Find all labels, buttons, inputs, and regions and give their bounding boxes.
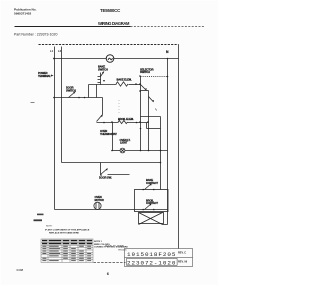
svg-text:REPLACE WITH SAME WIRE: REPLACE WITH SAME WIRE (49, 232, 79, 235)
svg-text:DOOR SW.: DOOR SW. (99, 176, 112, 180)
svg-text:REV. 06: REV. 06 (178, 261, 188, 264)
svg-text:NOTE 1: NOTE 1 (94, 241, 103, 243)
svg-text:TERMINAL: TERMINAL (38, 74, 51, 78)
svg-text:THERMOSTAT: THERMOSTAT (100, 132, 117, 136)
svg-text:SWITCH: SWITCH (98, 67, 108, 71)
svg-text:WIRING DIAGRAM: WIRING DIAGRAM (98, 21, 130, 26)
svg-text:BAKE ELEM.: BAKE ELEM. (117, 77, 132, 81)
svg-text:MOTOR: MOTOR (95, 198, 104, 202)
svg-text:SWITCH: SWITCH (140, 70, 150, 74)
svg-text:223072-1020: 223072-1020 (127, 259, 176, 266)
svg-text:IF ANY COMPONENT OF THIS APPLI: IF ANY COMPONENT OF THIS APPLIANCE (45, 228, 90, 231)
svg-text:TE5500C: TE5500C (118, 250, 127, 252)
svg-text:5995371402: 5995371402 (14, 12, 31, 16)
svg-text:0398: 0398 (17, 268, 24, 272)
svg-text:BROIL ELEM.: BROIL ELEM. (118, 117, 134, 121)
svg-text:L1: L1 (50, 49, 54, 53)
svg-text:CONTACT: CONTACT (146, 181, 158, 185)
svg-text:LIGHT: LIGHT (120, 141, 128, 145)
svg-text:NOTE:: NOTE: (46, 225, 53, 227)
svg-text:CONTACT: CONTACT (146, 201, 158, 205)
svg-text:L2: L2 (58, 49, 62, 53)
svg-text:SWITCH: SWITCH (66, 88, 76, 92)
svg-text:TE5500CC: TE5500CC (100, 8, 121, 13)
svg-text:1915018F205: 1915018F205 (127, 251, 176, 258)
svg-text:MODEL NO. SERIAL: MODEL NO. SERIAL (105, 244, 125, 247)
svg-text:Part Number : 229373-1020: Part Number : 229373-1020 (14, 33, 57, 37)
svg-text:REV. C: REV. C (178, 252, 186, 255)
